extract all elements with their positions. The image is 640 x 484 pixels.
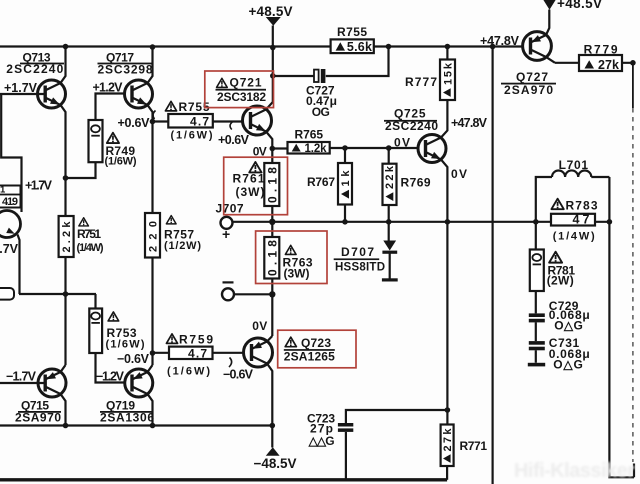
- svg-text:+47.8V: +47.8V: [451, 116, 488, 130]
- svg-text:△△G: △△G: [308, 434, 335, 448]
- svg-text:+47.8V: +47.8V: [480, 34, 520, 48]
- svg-text:(3W): (3W): [236, 185, 265, 199]
- svg-text:R765: R765: [295, 128, 324, 142]
- svg-text:1: 1: [0, 185, 6, 196]
- svg-text:R761: R761: [233, 172, 265, 186]
- svg-text:Q721: Q721: [230, 76, 262, 90]
- svg-text:O△G: O△G: [553, 358, 583, 372]
- svg-text:−0.6V: −0.6V: [223, 368, 254, 382]
- svg-text:Hifi-Klassiker: Hifi-Klassiker: [514, 460, 635, 482]
- svg-text:R767: R767: [307, 175, 335, 189]
- svg-text:R751: R751: [77, 227, 101, 241]
- svg-text:+0.6V: +0.6V: [218, 133, 250, 147]
- svg-text:(2W): (2W): [547, 274, 574, 288]
- svg-text:(1/6W): (1/6W): [105, 156, 137, 168]
- svg-text:Q723: Q723: [301, 336, 331, 350]
- svg-text:R755: R755: [337, 25, 367, 39]
- svg-text:0V: 0V: [394, 136, 410, 150]
- svg-text:−0.6V: −0.6V: [117, 352, 150, 366]
- svg-text:(1/2W): (1/2W): [164, 240, 201, 252]
- svg-text:−48.5V: −48.5V: [254, 456, 297, 471]
- svg-text:(1/4W): (1/4W): [77, 242, 104, 254]
- svg-text:Q727: Q727: [516, 70, 548, 84]
- svg-text:27k: 27k: [442, 428, 454, 452]
- svg-text:1.2k: 1.2k: [305, 143, 328, 155]
- svg-text:+1.7V: +1.7V: [4, 81, 38, 95]
- svg-text:0V: 0V: [451, 167, 467, 181]
- svg-text:(1/6W): (1/6W): [167, 366, 210, 378]
- svg-text:0V: 0V: [252, 319, 267, 333]
- svg-text:+48.5V: +48.5V: [557, 0, 602, 11]
- svg-text:O△G: O△G: [554, 319, 583, 333]
- svg-text:D707: D707: [341, 245, 374, 259]
- svg-text:2.2k: 2.2k: [61, 221, 73, 253]
- svg-text:+1.7V: +1.7V: [0, 242, 19, 256]
- svg-text:J707: J707: [216, 202, 244, 216]
- svg-text:5.6k: 5.6k: [347, 40, 372, 54]
- svg-text:22k: 22k: [384, 165, 396, 189]
- svg-text:−1.2V: −1.2V: [96, 370, 125, 384]
- svg-text:0.18: 0.18: [265, 240, 279, 276]
- svg-text:419: 419: [2, 196, 18, 208]
- svg-text:HSS8ITD: HSS8ITD: [335, 262, 385, 274]
- svg-text:(3W): (3W): [284, 267, 310, 281]
- svg-text:2SC3182: 2SC3182: [217, 90, 266, 104]
- svg-text:4.7: 4.7: [190, 115, 209, 129]
- svg-text:4.7: 4.7: [188, 347, 207, 361]
- svg-text:220: 220: [148, 221, 160, 252]
- svg-text:+1.7V: +1.7V: [25, 179, 53, 193]
- svg-text:R771: R771: [460, 439, 488, 453]
- svg-text:0.18: 0.18: [265, 167, 279, 203]
- svg-text:L701: L701: [559, 158, 589, 172]
- svg-text:+1.2V: +1.2V: [93, 81, 124, 95]
- svg-text:2SA970: 2SA970: [504, 83, 553, 97]
- svg-text:+48.5V: +48.5V: [249, 4, 293, 19]
- svg-text:27k: 27k: [598, 58, 619, 72]
- svg-text:(1/6W): (1/6W): [171, 130, 213, 142]
- svg-text:2SC3298: 2SC3298: [98, 63, 153, 77]
- svg-text:OG: OG: [312, 105, 330, 119]
- svg-text:+0.6V: +0.6V: [118, 116, 151, 130]
- svg-text:−1.7V: −1.7V: [6, 370, 37, 384]
- svg-text:(1/6W): (1/6W): [106, 339, 145, 351]
- svg-text:+: +: [222, 226, 230, 242]
- svg-text:R777: R777: [405, 75, 437, 89]
- svg-text:R769: R769: [401, 176, 431, 190]
- svg-text:15k: 15k: [442, 62, 454, 85]
- svg-text:R783: R783: [566, 199, 598, 213]
- svg-text:2SA1265: 2SA1265: [284, 350, 335, 364]
- svg-text:(1/4W): (1/4W): [553, 231, 595, 243]
